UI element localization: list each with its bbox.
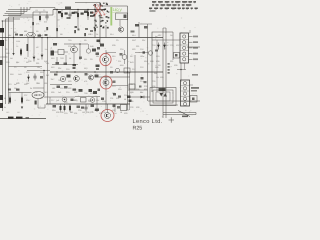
svg-text:Lenco Ltd.: Lenco Ltd. [133,118,163,125]
svg-text:4K7: 4K7 [166,44,169,47]
svg-text:C10: C10 [66,68,69,71]
svg-text:1K5: 1K5 [6,111,9,114]
svg-text:22K: 22K [142,39,146,42]
svg-text:R34: R34 [26,99,29,102]
svg-text:6V8: 6V8 [130,61,133,64]
svg-text:D3: D3 [158,64,160,67]
svg-text:C22: C22 [130,106,133,109]
svg-text:R18: R18 [10,73,13,76]
svg-text:R32: R32 [136,106,139,109]
svg-text:C12: C12 [26,71,29,74]
svg-text:R39: R39 [112,44,115,47]
svg-text:R21: R21 [44,82,47,85]
svg-text:D5: D5 [170,34,172,37]
svg-text:R26: R26 [136,88,139,91]
svg-text:680: 680 [70,111,73,114]
svg-text:680: 680 [24,30,27,33]
svg-text:C20: C20 [90,111,93,114]
svg-text:R31: R31 [116,97,119,100]
svg-text:R35: R35 [60,111,63,114]
svg-text:C17: C17 [132,68,135,71]
svg-text:1n5: 1n5 [58,91,61,94]
svg-text:C8: C8 [90,58,92,61]
svg-text:2K2: 2K2 [17,111,20,114]
svg-text:12K: 12K [96,99,100,102]
svg-text:IN: IN [4,97,7,100]
svg-text:R5: R5 [36,30,38,33]
svg-text:R17: R17 [130,55,133,58]
svg-text:R2: R2 [5,39,7,42]
svg-text:1W: 1W [156,76,159,79]
svg-text:C14: C14 [140,80,143,83]
svg-text:D2: D2 [14,87,16,90]
svg-text:C23: C23 [72,99,75,102]
svg-text:R6: R6 [24,66,26,69]
svg-text:140 V: 140 V [113,8,123,12]
svg-text:R10: R10 [51,57,54,60]
svg-text:15K: 15K [26,82,30,85]
svg-text:R33: R33 [124,112,127,115]
svg-text:R17: R17 [26,61,29,64]
svg-text:C22: C22 [144,85,147,88]
svg-text:47K: 47K [24,57,28,60]
svg-text:C16: C16 [140,48,143,51]
svg-text:330: 330 [136,45,139,48]
svg-text:220: 220 [112,92,115,95]
svg-text:R33: R33 [64,101,67,104]
svg-text:D3: D3 [110,66,112,69]
svg-text:C17: C17 [51,99,54,102]
svg-text:C25: C25 [68,45,71,48]
svg-text:C21: C21 [34,94,37,97]
svg-text:33K: 33K [58,67,62,70]
svg-text:C10: C10 [6,61,9,64]
svg-text:10n: 10n [37,66,40,69]
svg-text:R40: R40 [90,45,93,48]
svg-text:R23: R23 [68,80,71,83]
svg-text:150: 150 [82,111,85,114]
svg-text:C1: C1 [43,9,45,12]
svg-text:TR5: TR5 [84,92,88,95]
svg-text:R31: R31 [74,112,77,115]
svg-text:R38: R38 [34,91,37,94]
svg-text:56K: 56K [96,55,100,58]
svg-text:220K: 220K [16,40,21,43]
svg-text:C16: C16 [124,94,127,97]
svg-text:470: 470 [84,80,87,83]
svg-text:R24: R24 [144,60,147,63]
svg-text:R16: R16 [6,52,9,55]
svg-text:C11: C11 [118,60,121,63]
svg-text:R36: R36 [152,85,155,88]
svg-text:R25: R25 [133,125,143,131]
svg-text:C20: C20 [152,80,155,83]
svg-text:C11: C11 [46,62,49,65]
svg-text:2n2: 2n2 [44,21,47,24]
svg-text:R14: R14 [132,34,135,37]
svg-text:R9: R9 [84,39,86,42]
svg-text:47: 47 [24,34,26,37]
svg-text:R34: R34 [88,99,91,102]
svg-text:R38: R38 [156,60,159,63]
svg-text:R15: R15 [112,55,115,58]
svg-text:R28: R28 [130,91,133,94]
svg-text:C19: C19 [64,112,67,115]
svg-text:4K7: 4K7 [36,46,39,49]
svg-text:68K: 68K [140,91,144,94]
svg-text:~~~: ~~~ [28,2,32,4]
svg-text:R23: R23 [132,48,135,51]
svg-text:330: 330 [170,60,173,63]
svg-text:R24: R24 [118,88,121,91]
svg-text:R14: R14 [110,33,113,36]
svg-text:C25: C25 [78,109,81,112]
svg-text:3n3: 3n3 [46,74,49,77]
svg-text:C24: C24 [120,48,123,51]
svg-text:D2: D2 [37,58,39,61]
svg-text:R37: R37 [112,109,115,112]
svg-text:68K: 68K [16,61,20,64]
svg-text:R30: R30 [174,64,177,67]
svg-text:R8: R8 [60,33,62,36]
svg-text:C26: C26 [102,111,105,114]
svg-text:R29: R29 [160,76,163,79]
svg-text:D4: D4 [114,112,116,115]
svg-text:C13: C13 [8,83,11,86]
svg-text:C7: C7 [44,30,46,33]
svg-text:56: 56 [124,98,126,101]
svg-text:100: 100 [52,87,55,90]
svg-text:R22: R22 [68,87,71,90]
svg-text:C18: C18 [102,100,105,103]
svg-text:C15: C15 [60,87,63,90]
svg-text:R25: R25 [51,91,54,94]
svg-text:1K: 1K [69,57,72,60]
svg-text:2K7: 2K7 [51,78,54,81]
svg-text:47K: 47K [36,23,40,26]
svg-text:R11: R11 [84,58,87,61]
svg-text:TR4: TR4 [58,79,62,82]
svg-text:C12: C12 [140,66,143,69]
svg-text:R28: R28 [150,60,153,63]
svg-text:R26: R26 [74,91,77,94]
svg-text:R37: R37 [176,44,179,47]
svg-text:D4: D4 [126,109,128,112]
svg-text:C5: C5 [14,66,16,69]
svg-text:10u: 10u [45,48,48,51]
svg-text:R36: R36 [86,111,89,114]
svg-text:220: 220 [36,62,39,65]
svg-text:C21: C21 [110,97,113,100]
svg-text:TR3: TR3 [60,57,64,60]
svg-text:R19: R19 [40,71,43,74]
svg-text:C19: C19 [156,55,159,58]
svg-text:R16: R16 [132,39,135,42]
svg-text:C3: C3 [16,45,18,48]
svg-text:R3: R3 [14,31,16,34]
svg-text:R13: R13 [84,67,87,70]
svg-text:1M: 1M [57,19,60,22]
svg-text:100u: 100u [140,55,144,58]
svg-text:TR1: TR1 [68,39,72,42]
svg-text:C27: C27 [24,94,27,97]
svg-text:R35: R35 [130,100,133,103]
svg-text:R27: R27 [158,34,161,37]
svg-text:C15: C15 [66,91,69,94]
svg-text:7K5: 7K5 [44,91,47,94]
svg-text:C18: C18 [152,44,155,47]
svg-text:C23: C23 [170,44,173,47]
svg-text:C14: C14 [36,82,39,85]
svg-text:R12: R12 [51,66,54,69]
svg-text:18: 18 [120,111,122,114]
svg-text:R27: R27 [90,92,93,95]
svg-text:2K: 2K [30,87,33,90]
svg-text:10K: 10K [8,34,12,37]
svg-text:D1: D1 [96,33,98,36]
svg-text:C2: C2 [5,48,7,51]
svg-text:820: 820 [144,88,147,91]
svg-text:R1: R1 [36,9,38,12]
svg-text:IN: IN [4,106,7,109]
svg-text:R11: R11 [88,33,91,36]
svg-text:C9: C9 [116,39,118,42]
svg-text:1M: 1M [10,57,13,60]
svg-text:R30: R30 [56,111,59,114]
svg-text:1M5: 1M5 [18,73,22,76]
svg-text:C13: C13 [112,85,115,88]
